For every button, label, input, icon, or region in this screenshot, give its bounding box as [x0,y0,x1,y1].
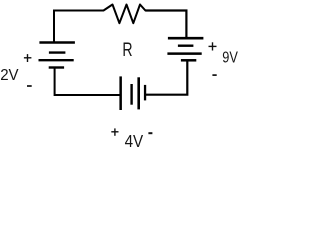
label + of B1 [24,54,32,62]
wire bottom-right: battery B2 tail down + bottom horizontal right segment [145,60,187,94]
label - of B1 [27,85,32,87]
label - of B2 [212,74,216,76]
svg-text:R: R [122,40,132,61]
battery B1 short plate 1 [49,51,66,53]
battery B3 (4V) bottom: long plate 1 [119,76,122,110]
battery B3 short plate 2 [144,85,146,101]
battery B1 long plate 2 [39,59,74,61]
wire top-right: top horizontal right segment + right vertical [145,11,186,38]
battery B2 (9V) right: long plate 1 [168,37,204,40]
svg-text:9V: 9V [222,49,238,66]
label + of B3 [111,128,118,135]
battery B1 short plate 2 [49,66,64,68]
battery B2 long plate 2 [167,52,201,55]
svg-text:2V: 2V [0,67,19,84]
battery B3 long plate 2 [137,77,140,109]
label - of B3 [148,132,152,134]
battery B2 short plate 2 [181,59,196,62]
battery B2 short plate 1 [178,45,194,47]
wire bottom-left: battery B1 tail down + bottom horizontal left segment [55,68,120,96]
battery B3 short plate 1 [130,84,132,105]
battery B1 (2V) left: long plate 1 [39,41,75,43]
resistor R1 zigzag [104,5,146,24]
label + of B2 [209,42,217,50]
svg-text:4V: 4V [125,131,144,151]
wire top-left: left vertical + top horizontal left segment [54,11,104,42]
